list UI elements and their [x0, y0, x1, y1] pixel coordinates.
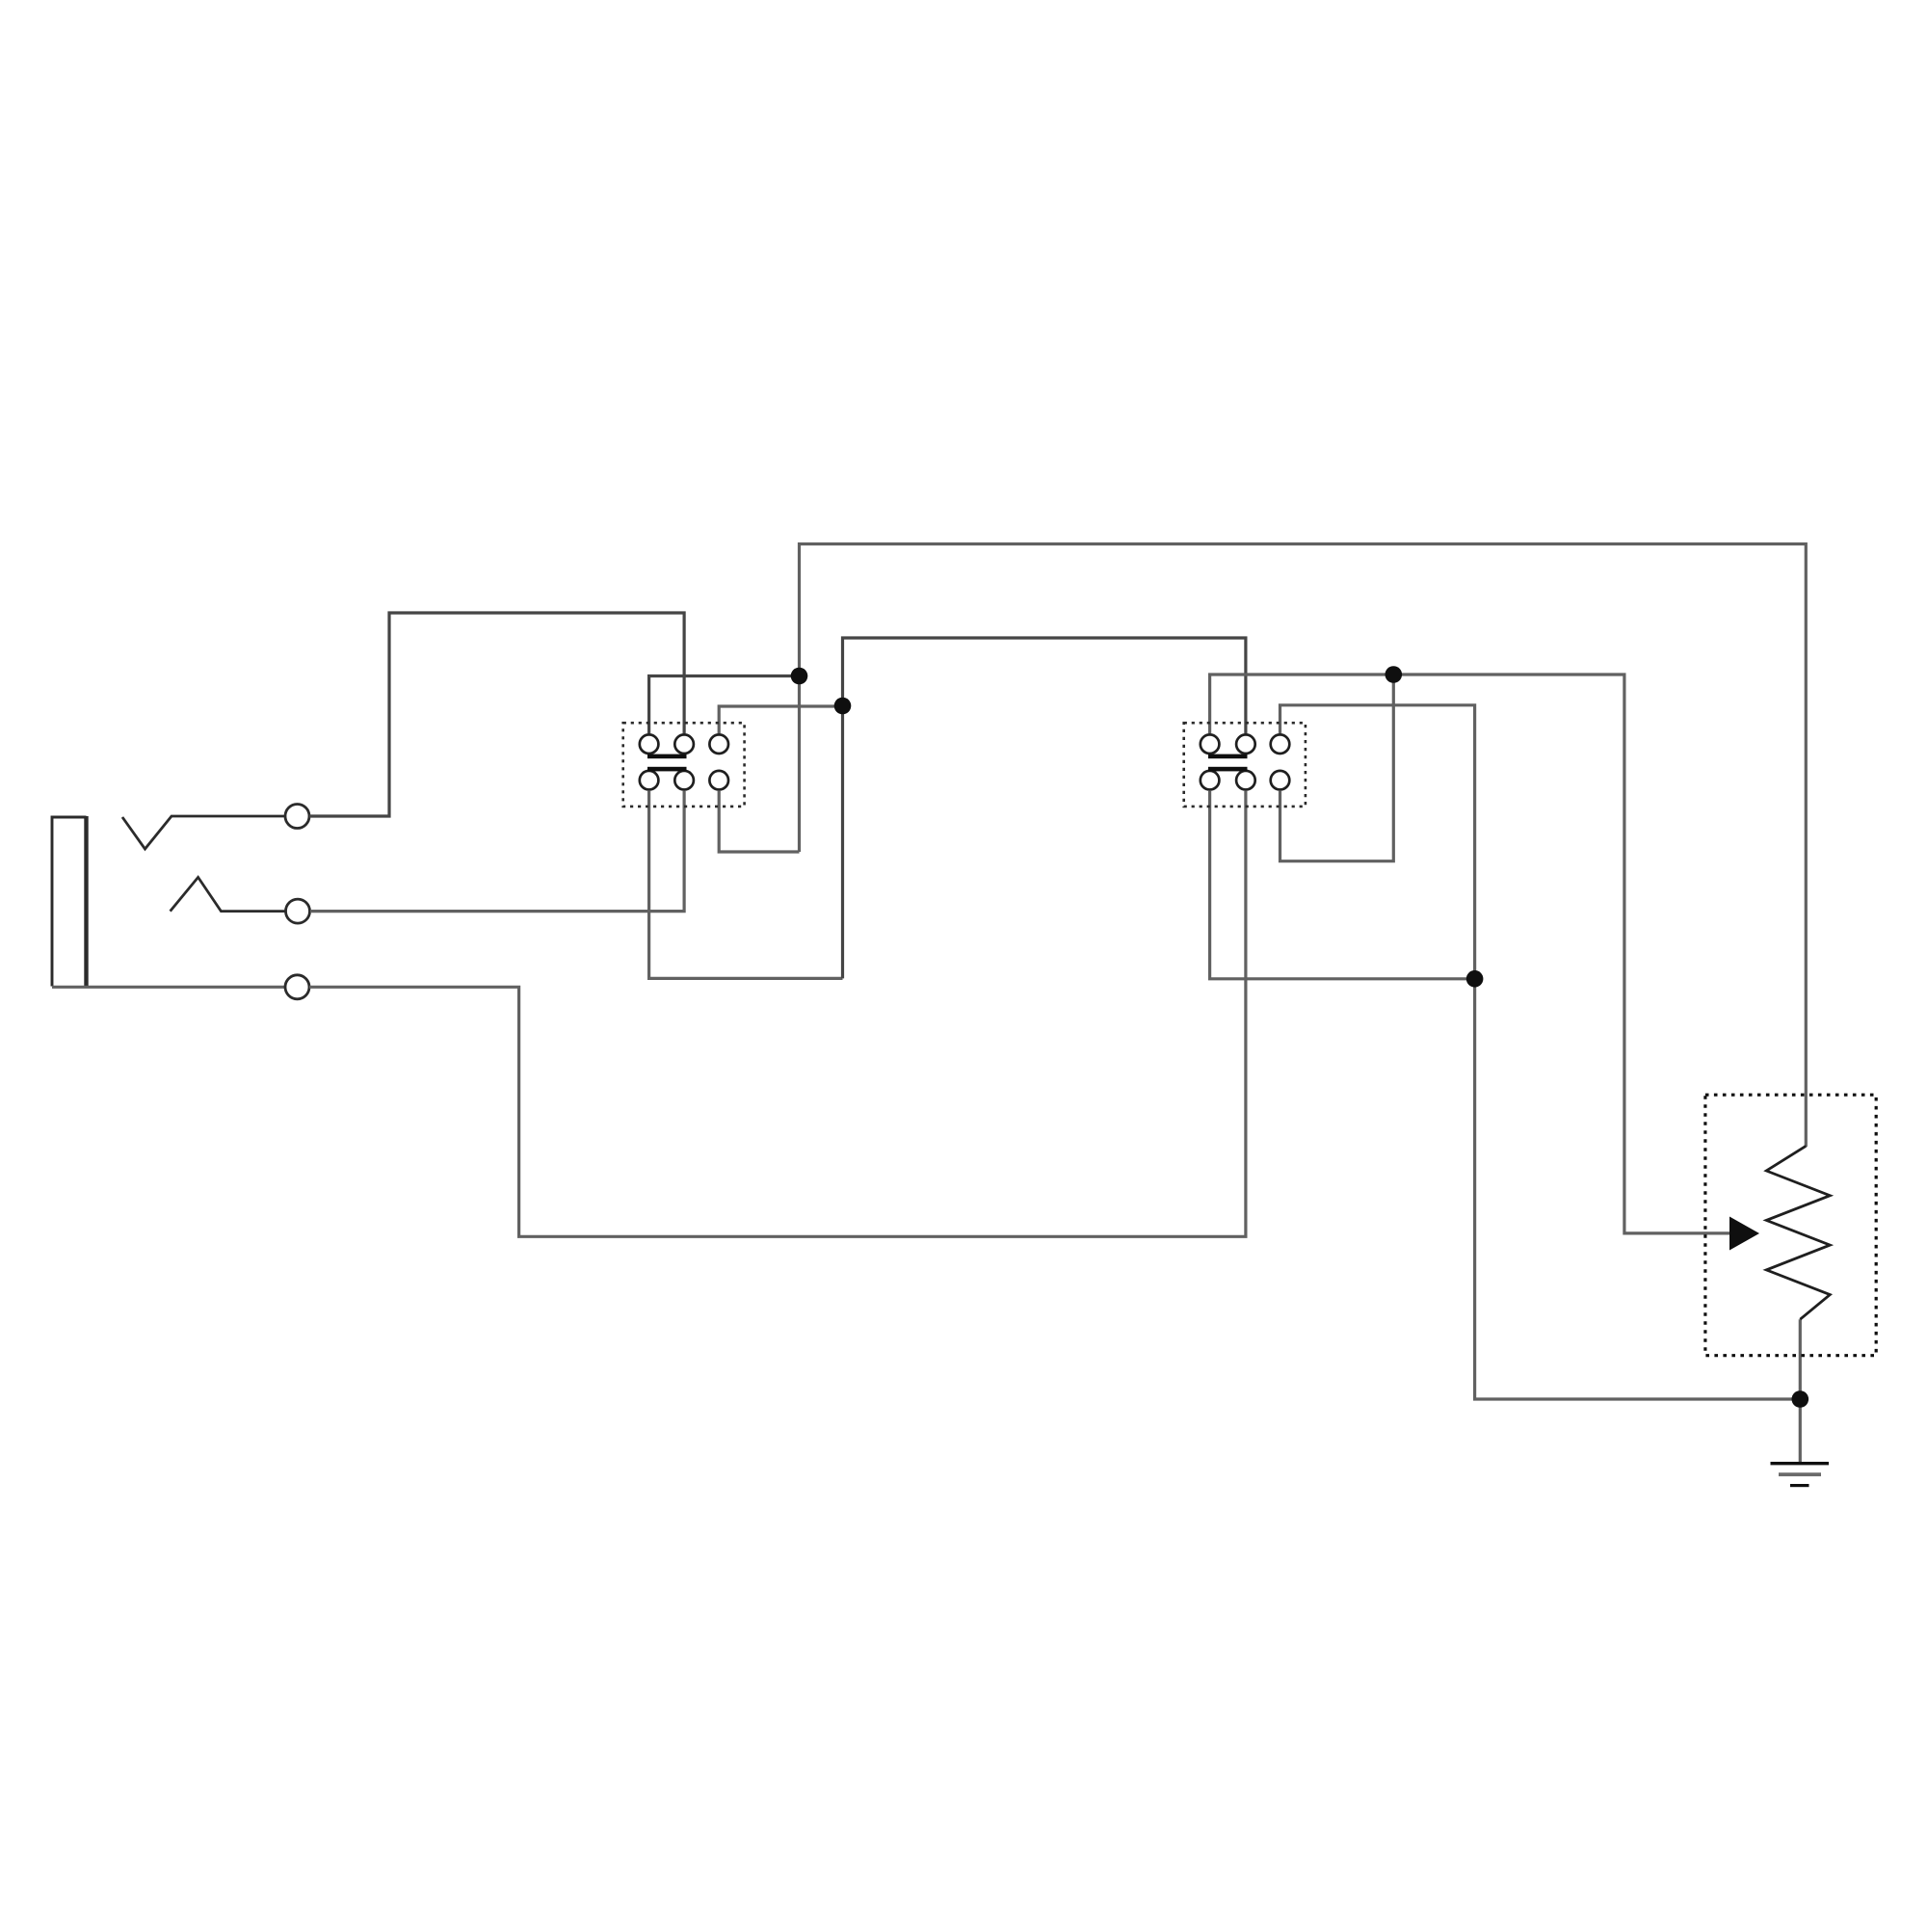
jack J1 sleeve terminal circle: [285, 975, 309, 999]
node D junction: [1466, 970, 1484, 988]
switch SW2 pin5: [1236, 771, 1255, 790]
wire sleeve to switch SW2 pin5: [309, 791, 1246, 1236]
ground node junction: [1792, 1390, 1809, 1408]
switch SW2 dashed outline: [1184, 723, 1306, 807]
wire SW1 pin1 to node A: [649, 676, 800, 734]
potentiometer VR1 dashed outline: [1705, 1095, 1876, 1356]
switch SW1 pin4: [640, 771, 659, 790]
wire SW2 pin6 to node C: [1280, 675, 1394, 861]
ground symbol bar 2: [1779, 1472, 1821, 1476]
switch SW2 pin3: [1271, 734, 1290, 754]
wire potentiometer bottom to ground: [1799, 1319, 1802, 1463]
switch SW2 pin2: [1236, 734, 1255, 754]
switch SW2 pin6: [1271, 771, 1290, 790]
potentiometer VR1 wiper arrow: [1729, 1217, 1759, 1251]
wire SW2 pin3 to ground node: [1280, 705, 1801, 1399]
jack J1 body: [52, 817, 87, 987]
switch SW2 pin4: [1201, 771, 1220, 790]
wire SW1 pin3 to node B: [719, 706, 842, 733]
wire SW1 pin4 loop to node B: [649, 791, 843, 978]
jack J1 ring contact: [171, 877, 286, 911]
node C junction: [1386, 666, 1403, 683]
node A junction: [791, 668, 808, 685]
wire node A up and across to potentiometer top: [800, 544, 1807, 1148]
wire SW2 pin1 to potentiometer wiper: [1210, 675, 1734, 1233]
switch SW1 pin2: [674, 734, 694, 754]
switch SW1 contact bar lower: [647, 767, 687, 772]
switch SW1 pin3: [709, 734, 728, 754]
switch SW2 contact bar upper: [1208, 754, 1248, 759]
wire ring to SW1 pin5: [310, 791, 684, 912]
potentiometer VR1 resistor zigzag: [1766, 1146, 1830, 1319]
ground symbol bar 1: [1771, 1462, 1830, 1465]
node B junction: [834, 698, 852, 715]
switch SW2 pin1: [1201, 734, 1220, 754]
wire node B to switch SW2 pin2: [843, 638, 1246, 978]
switch SW1 pin1: [640, 734, 659, 754]
jack J1 ring terminal circle: [286, 899, 310, 923]
switch SW1 pin6: [709, 771, 728, 790]
wire SW1 pin6 to node A: [719, 791, 799, 852]
wire tip to switch SW1 pin2: [309, 613, 684, 816]
switch SW1 pin5: [674, 771, 694, 790]
switch SW2 contact bar lower: [1208, 767, 1248, 772]
ground symbol bar 3: [1790, 1484, 1809, 1487]
switch SW1 contact bar upper: [647, 754, 687, 759]
wire SW2 pin4 to node D: [1210, 791, 1475, 979]
switch SW1 dashed outline: [623, 723, 745, 807]
jack J1 tip contact: [122, 816, 285, 849]
jack J1 tip terminal circle: [285, 805, 309, 829]
